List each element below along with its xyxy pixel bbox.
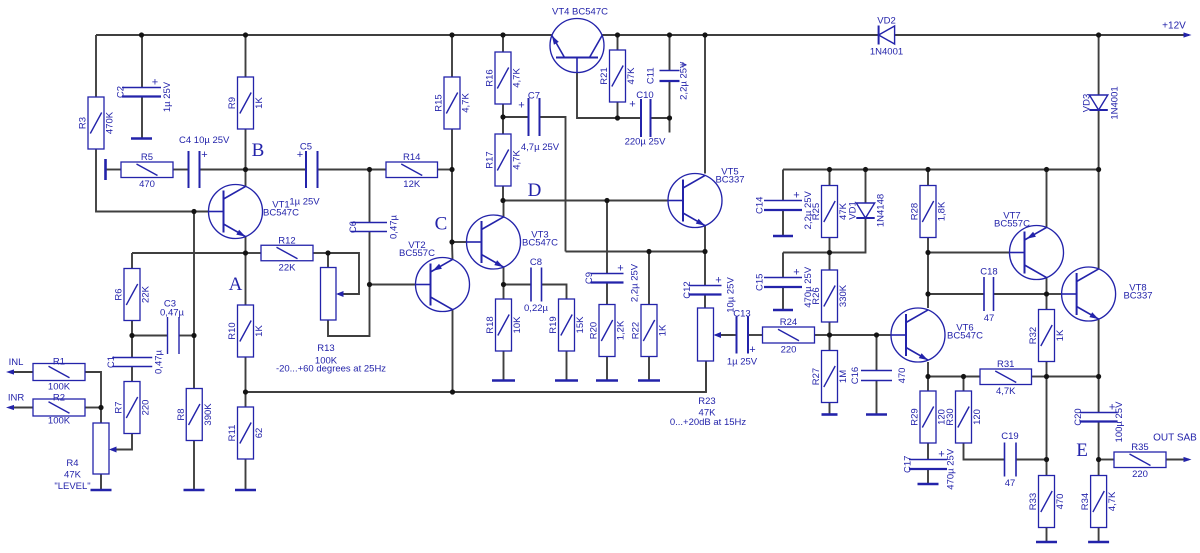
wire: node to ground (669, 118, 671, 133)
svg-text:1N4148: 1N4148 (876, 194, 887, 227)
junction: rail / C11 (667, 32, 672, 37)
junction: C5 / R14 / C6 (367, 167, 372, 172)
transistor VT5 (BC337 NPN) (668, 174, 722, 228)
capacitor C18 (984, 277, 994, 311)
wire: rail to R15 (451, 35, 453, 77)
svg-text:R11: R11 (227, 425, 238, 442)
transistor VT4 (BC547C NPN) (550, 19, 604, 73)
junction: bias rail / VT7 emitter (1044, 167, 1049, 172)
wire: R4 to ground (100, 474, 102, 490)
junction: rail / R15 (449, 32, 454, 37)
transistor VT7 (BC557C PNP) (1010, 226, 1064, 280)
svg-text:C17: C17 (903, 456, 914, 473)
wire: C12 to R23 (704, 295, 706, 309)
resistor R25 (822, 186, 838, 238)
wire: node to R4 (100, 408, 102, 424)
junction: R30 / R31 (961, 374, 966, 379)
svg-text:4,7K: 4,7K (1107, 491, 1118, 511)
resistor R17 (495, 134, 511, 186)
svg-text:C2: C2 (116, 86, 127, 98)
wire: C2 to ground (141, 97, 143, 139)
svg-text:-20...+60 degrees at 25Hz: -20...+60 degrees at 25Hz (276, 364, 386, 375)
wire: R19 to ground (566, 351, 568, 381)
svg-text:R16: R16 (485, 69, 496, 86)
wire: rail to R16 (502, 35, 504, 52)
junction: VT5 emitter / C12 (702, 249, 707, 254)
svg-text:BC557C: BC557C (399, 248, 435, 259)
wire: bias rail (783, 169, 1099, 171)
wire: C13 to R24 (748, 334, 763, 336)
svg-text:OUT SAB: OUT SAB (1153, 433, 1197, 444)
svg-text:+12V: +12V (1162, 21, 1186, 32)
wire: rail to VT7 emitter (1046, 170, 1048, 228)
wire: node to C7 (503, 116, 529, 118)
junction: R12 / R13 (325, 250, 330, 255)
wire: down to C15 (782, 253, 784, 278)
junction: VT8 emitter / C20 (1096, 374, 1101, 379)
wire: node to R33 (1046, 460, 1048, 476)
wire: R17 to node D (502, 186, 504, 201)
svg-text:R34: R34 (1080, 493, 1091, 510)
ground (C14) (773, 235, 793, 238)
potentiometer R4 (93, 423, 109, 474)
resistor R7 (124, 382, 140, 434)
wire: R30 to C19 (964, 444, 1005, 460)
wire: R31 to node (1032, 376, 1047, 378)
svg-text:C7: C7 (528, 91, 540, 102)
wire: C7 down to VT5 emitter row (540, 117, 566, 252)
junction: VT6 collector / C18 (925, 291, 930, 296)
wire: node to R18 (503, 285, 505, 300)
svg-text:R2: R2 (53, 393, 65, 404)
junction: bias rail / R25 (827, 167, 832, 172)
svg-text:BC337: BC337 (1123, 291, 1152, 302)
resistor R1 (33, 364, 85, 381)
wire: node to R29 (927, 377, 929, 392)
svg-text:R28: R28 (910, 203, 921, 220)
svg-text:R5: R5 (141, 152, 153, 163)
wire: node to R30 (963, 377, 965, 392)
resistor R12 (261, 245, 313, 261)
svg-text:R13: R13 (317, 343, 334, 354)
wire: C6 to VT2 base node (369, 232, 371, 285)
wire: rail to R28 (927, 170, 929, 186)
junction: rail / C2 (139, 32, 144, 37)
junction: R2 / R4 (98, 405, 103, 410)
svg-text:C11: C11 (646, 67, 657, 84)
wire: R14 to R15 node (438, 169, 453, 171)
wire: R14 node to C6 (369, 170, 371, 223)
svg-text:47K: 47K (626, 67, 637, 85)
junction: rail / R21 (615, 32, 620, 37)
wire: node to VT8 emitter (1047, 376, 1099, 378)
resistor R18 (496, 299, 512, 351)
wire: R7 to R4 wiper (111, 433, 132, 450)
wire: node to C1 (131, 336, 133, 358)
svg-text:470: 470 (1055, 494, 1066, 510)
junction: R28 / VT7 base (925, 250, 930, 255)
junction: bias rail / VD1 (863, 167, 868, 172)
svg-text:0,47µ: 0,47µ (160, 308, 184, 319)
wire: node to C10 (618, 117, 642, 119)
svg-text:0...+20dB at 15Hz: 0...+20dB at 15Hz (670, 417, 747, 428)
wire: node to R14 (370, 169, 387, 171)
wire: R26 to VT6 base node (829, 322, 831, 335)
diode VD2 (1N4001) (879, 26, 895, 45)
ground (R4) (91, 489, 112, 492)
svg-text:220: 220 (1132, 469, 1148, 480)
svg-text:390K: 390K (203, 403, 214, 426)
ground (R22) (638, 379, 660, 382)
R13 wiper arrow (336, 291, 344, 297)
svg-text:12K: 12K (403, 179, 421, 190)
wire: node to R27 (829, 335, 831, 351)
svg-text:100K: 100K (48, 416, 71, 427)
junction node B (243, 167, 248, 172)
wire: +12V rail right segment (895, 34, 1189, 36)
wire: C3 node down to R8 (193, 336, 195, 389)
wire: C10 to C11 node (651, 117, 670, 119)
svg-text:10K: 10K (512, 316, 523, 334)
junction: bias rail / VD3 (1096, 167, 1101, 172)
resistor R22 (641, 305, 657, 357)
capacitor C15 (764, 278, 802, 288)
junction: VT3 emitter / C8 / R18 (501, 282, 506, 287)
wire: R8 to ground (193, 441, 195, 491)
wire: R12 to R13 node (313, 252, 328, 254)
svg-text:0,47µ: 0,47µ (389, 214, 400, 238)
ground (R20) (596, 379, 618, 382)
wire: node to R32 (1046, 294, 1048, 310)
wire: R24 to R26 node (815, 334, 830, 336)
svg-text:C18: C18 (980, 267, 997, 278)
capacitor C16 (861, 371, 892, 381)
svg-text:R10: R10 (227, 322, 238, 339)
svg-text:R9: R9 (227, 97, 238, 109)
capacitor C3 (168, 317, 180, 354)
wire: C9 node to VT5 base (607, 200, 668, 202)
wire: C3 to R8 node (179, 335, 194, 337)
wire: R18 to ground (503, 351, 505, 381)
output arrow (1184, 457, 1192, 462)
transistor VT6 (BC547C NPN) (891, 308, 945, 362)
wire: R32 to node (1046, 362, 1048, 377)
wire: input bar to R5 (106, 169, 122, 171)
wire: R28 to VT7 base node (927, 238, 929, 253)
svg-text:4,7µ 25V: 4,7µ 25V (521, 142, 560, 153)
resistor R28 (920, 186, 936, 238)
resistor R33 (1039, 476, 1055, 528)
wire: VT6 emitter node down to R33 node (1046, 377, 1048, 460)
junction: VT2 base / C6 / R13 (367, 282, 372, 287)
resistor R29 (920, 391, 936, 443)
svg-text:0,22µ: 0,22µ (524, 303, 548, 314)
wire: VT5 emitter down (704, 226, 706, 252)
svg-text:100µ 25V: 100µ 25V (1114, 401, 1125, 443)
wire: VT5 emitter row (566, 251, 706, 253)
transistor VT8 (BC337 NPN) (1062, 267, 1116, 321)
wire: D row to C9 (606, 201, 608, 274)
wire: C17 to ground (927, 469, 929, 484)
wire: node to R13 top (327, 253, 329, 268)
svg-text:1µ 25V: 1µ 25V (727, 357, 758, 368)
svg-text:D: D (528, 180, 542, 201)
wire: C1 to R7 (131, 367, 133, 382)
wire: R25 to node (829, 238, 831, 253)
svg-text:BC337: BC337 (715, 175, 744, 186)
resistor R27 (822, 351, 838, 403)
svg-text:+: + (749, 344, 755, 356)
junction: R6 / C1 / C3 (129, 333, 134, 338)
svg-text:C1: C1 (106, 356, 117, 368)
wire: R3 bottom to VT1 base (96, 149, 209, 212)
svg-text:47: 47 (984, 313, 995, 324)
wire: INL input to R1 (10, 371, 33, 373)
resistor R16 (495, 52, 511, 104)
svg-text:C14: C14 (755, 197, 766, 214)
svg-text:22K: 22K (141, 285, 152, 303)
capacitor C17 (909, 460, 947, 470)
svg-text:R4: R4 (66, 458, 78, 469)
wire: node to R30 node (928, 376, 964, 378)
transistor VT2 (BC557C PNP) (416, 258, 470, 312)
svg-text:1,2K: 1,2K (616, 320, 627, 340)
svg-text:1µ 25V: 1µ 25V (289, 197, 320, 208)
wire: VT7 collector to node (1046, 278, 1048, 294)
wire: node down to VT6 collector node (927, 253, 929, 295)
wire: C15 to ground (782, 287, 784, 310)
wire: node to C3 (132, 335, 168, 337)
svg-text:+: + (715, 275, 721, 287)
wire: R23 wiper to C13 (716, 334, 734, 336)
junction: C19 / R33 (1044, 457, 1049, 462)
wire: node E to R35 (1099, 459, 1114, 461)
wire: VT2 base node to R13 bottom (328, 285, 370, 337)
svg-text:1M: 1M (838, 370, 849, 383)
svg-text:BC547C: BC547C (947, 331, 983, 342)
wire: rail to R25 (829, 170, 831, 186)
wire: node D to C9 node (503, 200, 607, 202)
wire: R16 to C7 node (502, 103, 504, 117)
svg-text:C20: C20 (1073, 408, 1084, 425)
resistor R2 (33, 399, 85, 416)
capacitor C13 (737, 317, 749, 354)
junction: D row / C9 (604, 198, 609, 203)
svg-text:R7: R7 (114, 401, 125, 413)
wire: R9 to node B (245, 128, 247, 170)
svg-text:220: 220 (141, 400, 152, 416)
svg-text:R21: R21 (599, 67, 610, 84)
resistor R9 (238, 77, 254, 129)
junction: R24 / R26 / R27 (827, 332, 832, 337)
svg-text:+: + (617, 263, 623, 275)
wire: node to R26 (829, 253, 831, 271)
svg-text:+: + (201, 149, 207, 161)
R23 wiper arrow (714, 332, 722, 338)
wire: rail to VD1 (865, 170, 867, 204)
wire: VT8 emitter to node (1098, 319, 1100, 376)
svg-text:A: A (229, 274, 243, 295)
wire: VT1 base node down to C3 node (193, 212, 195, 336)
wire: R5 to C4 (173, 169, 189, 171)
wire: emitter row to C12 (704, 252, 706, 286)
wire: R35 to output (1166, 459, 1189, 461)
wire: node to C15 (783, 252, 830, 254)
capacitor C12 (689, 286, 722, 295)
svg-text:4,7K: 4,7K (996, 386, 1016, 397)
svg-text:R8: R8 (176, 408, 187, 420)
svg-text:1K: 1K (658, 324, 669, 336)
wire: INR input to R2 (10, 407, 33, 409)
wire: R11 to ground (245, 459, 247, 491)
resistor R26 (822, 270, 838, 322)
ground (C15) (773, 309, 793, 312)
svg-text:22K: 22K (279, 262, 297, 273)
wire: rail to C11 (669, 35, 671, 71)
resistor R32 (1039, 310, 1055, 362)
svg-text:1K: 1K (1055, 329, 1066, 341)
svg-text:R6: R6 (114, 288, 125, 300)
wire: C20 to node E (1098, 422, 1100, 460)
resistor R34 (1091, 476, 1107, 528)
wire: bottom feedback rail (246, 361, 707, 392)
ground (R34) (1088, 541, 1109, 544)
wire: node to VT7 base (928, 252, 1010, 254)
diode VD1 (1N4148) (856, 203, 874, 218)
wire: R2 to node (85, 407, 101, 409)
wire: R29 to C17 (927, 443, 929, 460)
wire: VT6 emitter to node (927, 362, 929, 377)
wire: node to C16 node (830, 334, 877, 336)
svg-text:62: 62 (254, 428, 265, 439)
svg-text:C16: C16 (850, 367, 861, 384)
wire: node to R17 (502, 117, 504, 134)
wire: node B to VT1 collector (245, 170, 247, 187)
svg-text:C9: C9 (584, 272, 595, 284)
junction node D / R17 / VT3 collector (500, 198, 505, 203)
capacitor C9 (591, 274, 624, 283)
wire: R34 to ground (1098, 528, 1100, 543)
wire: R21 to node (617, 102, 619, 118)
capacitor C5 (306, 151, 318, 188)
svg-text:R12: R12 (278, 235, 295, 246)
wire: node to VT2 emitter (451, 242, 454, 259)
wire: node E to R34 (1098, 460, 1100, 476)
svg-text:R24: R24 (780, 317, 797, 328)
svg-text:R14: R14 (403, 152, 420, 163)
svg-text:470µ 25V: 470µ 25V (946, 448, 957, 490)
wire: R1 to R2 node (85, 372, 101, 408)
wire: emitter node to R10 (245, 253, 247, 305)
svg-text:C8: C8 (530, 257, 542, 268)
capacitor C4 (189, 151, 200, 188)
ground (R33) (1036, 541, 1057, 544)
svg-text:2,2µ 25V: 2,2µ 25V (630, 263, 641, 302)
capacitor C20 (1080, 413, 1118, 422)
svg-text:R23: R23 (698, 396, 715, 407)
svg-text:R22: R22 (631, 322, 642, 339)
svg-text:C13: C13 (733, 309, 750, 320)
junction: bias rail / R28 (925, 167, 930, 172)
wire: bias rail to C14 (782, 170, 784, 201)
svg-text:1N4001: 1N4001 (870, 47, 903, 58)
junction: VT6 emitter / R29 (925, 374, 930, 379)
wire: R23 bottom to rail (705, 361, 707, 392)
ground (R18) (492, 379, 515, 382)
ground (R11) (235, 489, 256, 492)
svg-text:R27: R27 (811, 368, 822, 385)
svg-text:470: 470 (139, 179, 155, 190)
wire (734, 334, 737, 336)
junction: R25 / VD1 / R26 / C15 (827, 250, 832, 255)
wire: VD3 to bias rail (1098, 111, 1100, 170)
resistor R24 (763, 327, 815, 343)
wire: emitter node to R12 (246, 252, 262, 254)
junction: R14 / R15 (449, 167, 454, 172)
svg-text:C: C (435, 214, 448, 235)
junction: bottom rail / R10 / R11 (243, 389, 248, 394)
svg-text:"LEVEL": "LEVEL" (54, 481, 90, 492)
wire: node to VT3 base (452, 241, 467, 243)
resistor R14 (386, 162, 438, 178)
wire: +12V rail middle segment (602, 34, 878, 36)
svg-text:R31: R31 (997, 359, 1014, 370)
svg-text:330K: 330K (838, 284, 849, 307)
resistor R8 (186, 389, 202, 441)
wire: rail to R3 top (95, 35, 97, 97)
wire: C5 to R14 node (318, 169, 370, 171)
svg-text:+: + (793, 267, 799, 279)
svg-text:470µ 25V: 470µ 25V (803, 266, 814, 308)
wire: VT4 base to C10 node (577, 73, 618, 119)
resistor R20 (599, 305, 615, 357)
svg-text:1,8K: 1,8K (937, 201, 948, 221)
junction: bottom rail / VT2 collector (450, 389, 455, 394)
wire: C11 to node (669, 81, 671, 118)
svg-text:2,2µ 25V: 2,2µ 25V (803, 190, 814, 229)
svg-text:VD1: VD1 (848, 201, 859, 219)
junction: rail / R16 (500, 32, 505, 37)
wire: R6 to C3 node (131, 321, 133, 336)
svg-text:R29: R29 (910, 408, 921, 425)
svg-text:47: 47 (1005, 478, 1016, 489)
svg-text:C15: C15 (755, 274, 766, 291)
svg-text:BC547C: BC547C (522, 238, 558, 249)
svg-text:1µ 25V: 1µ 25V (162, 81, 173, 112)
wire: R22 to ground (648, 357, 650, 381)
junction: VT1 base (191, 209, 196, 214)
ground (C16) (866, 413, 887, 416)
wire: node D to VT3 collector (503, 201, 505, 217)
wire: VD1 to R25 node (830, 218, 866, 253)
svg-text:47K: 47K (64, 470, 82, 481)
svg-text:220µ 25V: 220µ 25V (625, 137, 667, 148)
svg-text:4,7K: 4,7K (461, 93, 472, 113)
svg-text:BC557C: BC557C (994, 219, 1030, 230)
svg-text:+: + (297, 149, 303, 161)
svg-text:1N4001: 1N4001 (1110, 86, 1121, 119)
resistor R21 (610, 50, 626, 102)
wire: R20 to ground (606, 357, 608, 381)
wire: rail to VT5 collector (704, 35, 706, 174)
svg-text:2,2µ 25V: 2,2µ 25V (679, 61, 690, 100)
wire: node to R31 (964, 376, 981, 378)
wire: node to C18 (928, 293, 984, 295)
R4 wiper arrow (109, 447, 117, 453)
wire: VT1 emitter to node A column (245, 237, 247, 253)
wire: bottom rail to R11 (245, 392, 247, 407)
capacitor C7 (529, 98, 540, 136)
